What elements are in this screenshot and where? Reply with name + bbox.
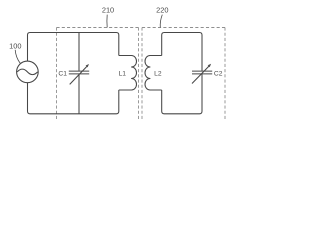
wire: circuit-2 top wire — [162, 33, 202, 71]
C2 trim arrow — [192, 65, 210, 83]
inductor L2 — [145, 56, 162, 91]
ac source 100 — [17, 61, 39, 83]
wire: circuit-1 top wire — [28, 33, 119, 62]
wire: C1 top lead — [78, 33, 80, 71]
leader line for label 100 — [15, 50, 20, 63]
inductor L1 — [119, 56, 137, 91]
leader line for label 210 — [106, 15, 108, 28]
svg-text:C1: C1 — [58, 71, 67, 78]
svg-text:C2: C2 — [214, 71, 223, 78]
dashed box 220 — [142, 28, 225, 122]
capacitor C1 — [69, 71, 89, 74]
capacitor C2 — [192, 71, 212, 74]
svg-text:100: 100 — [9, 42, 21, 51]
svg-text:L1: L1 — [118, 71, 126, 78]
wire: C1 bottom lead — [78, 74, 80, 114]
svg-text:L2: L2 — [154, 71, 162, 78]
svg-text:220: 220 — [156, 5, 168, 14]
wire: circuit-1 bottom wire — [28, 83, 119, 114]
wire: circuit-2 bottom wire — [162, 74, 202, 114]
dashed box 210 — [57, 28, 139, 122]
svg-text:210: 210 — [102, 5, 114, 14]
C1 trim arrow — [70, 66, 88, 85]
leader line for label 220 — [160, 15, 162, 28]
